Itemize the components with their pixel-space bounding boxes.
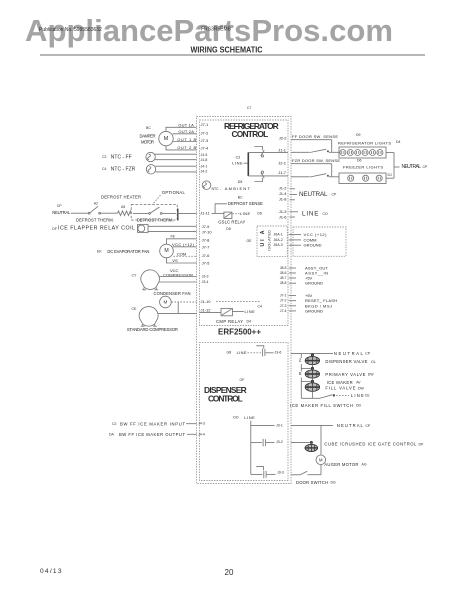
svg-text:WIRING SCHEMATIC: WIRING SCHEMATIC [191,46,263,55]
svg-text:J6A-1: J6A-1 [274,233,283,237]
node ff junction [331,140,333,153]
lamp L5 [370,150,376,156]
svg-text:DO: DO [233,416,239,420]
svg-text:CONDENSER FAN: CONDENSER FAN [154,291,191,296]
svg-text:CUBE /CRUSHED ICE GATE CONTROL: CUBE /CRUSHED ICE GATE CONTROL [324,442,417,447]
svg-text:A2: A2 [94,202,98,206]
svg-text:J1-10: J1-10 [201,299,212,304]
svg-text:M: M [163,300,167,305]
wire dispenser neutral lower [291,424,333,426]
svg-text:5: 5 [299,371,302,377]
svg-text:DD: DD [356,404,362,408]
svg-text:DEFROST THERM.: DEFROST THERM. [76,217,114,222]
svg-text:VS: VS [172,258,178,263]
ice flapper relay coil [138,225,149,233]
svg-text:DAMPER: DAMPER [140,134,156,139]
svg-text:DEFROST HEATER: DEFROST HEATER [101,195,141,200]
svg-text:OUT 2 B: OUT 2 B [177,145,196,150]
svg-text:J3-1: J3-1 [276,424,283,428]
triac Q3 [263,471,265,479]
wire vcc compressor a [159,276,196,278]
standard compressor [139,307,158,327]
tick ground [289,244,301,246]
wire cmp relay line [232,311,243,313]
junction bar [177,209,179,221]
lamp L3 [355,150,361,156]
wire line to J1-7 [248,175,288,177]
wire line to J1-1 [248,151,288,153]
svg-text:NEUTRAL: NEUTRAL [299,191,328,198]
vcc compressor [141,270,160,290]
wire evap fan COM dashed [173,255,196,257]
wire heater to optional box [129,212,131,214]
svg-text:J2-1: J2-1 [278,161,287,166]
svg-text:DOOR SWITCH: DOOR SWITCH [296,480,328,485]
svg-text:CONTROL: CONTROL [208,394,243,404]
svg-text:J4-2: J4-2 [201,169,208,173]
svg-text:REFRIGERATOR LIGHTS: REFRIGERATOR LIGHTS [338,141,391,146]
svg-text:J6A-3: J6A-3 [274,243,283,247]
svg-text:ICE FLAPPER RELAY COIL: ICE FLAPPER RELAY COIL [58,226,135,232]
svg-text:D4: D4 [396,140,401,144]
svg-text:NTC - FF: NTC - FF [111,155,132,161]
svg-text:NEUTRAL: NEUTRAL [52,210,71,215]
wire standard compressor [158,312,197,314]
svg-text:J7-5: J7-5 [202,260,211,265]
wire evap fan 2 [173,246,197,248]
wire ff sense [291,139,332,141]
wire ice maker input [186,423,197,425]
node solenoid3 top [311,378,313,380]
wire solenoid3 bottom [311,391,313,398]
wire to heater [101,212,118,214]
svg-text:J7-6: J7-6 [202,253,211,258]
switch ice maker fill [320,395,333,399]
switch fzr door [310,174,327,177]
tick comm [289,239,301,241]
svg-text:DC EVAPORATOR FAN: DC EVAPORATOR FAN [107,249,149,254]
svg-text:AUGER MOTOR: AUGER MOTOR [324,462,358,467]
svg-text:J8-5: J8-5 [280,266,287,270]
refrigerator lights box [339,147,386,158]
svg-text:LINE: LINE [245,309,256,314]
wire lights right bus [393,153,395,179]
svg-text:J7-4: J7-4 [280,309,287,313]
condenser fan motor [160,296,172,308]
dispenser line bus [250,421,252,475]
svg-text:FREEZER LIGHTS: FREEZER LIGHTS [343,164,383,169]
wire lights right a [386,152,394,154]
lamp L4 [362,150,368,156]
svg-text:J1-8: J1-8 [279,197,288,202]
svg-text:OUT 1 B: OUT 1 B [177,137,196,142]
wire bus to triac Q2 [251,442,262,444]
svg-text:DL: DL [371,360,376,364]
svg-text:LINE: LINE [244,415,255,420]
svg-text:J3-4: J3-4 [202,280,209,284]
wire line to triac dashed [248,352,262,354]
wire evap fan VS [167,258,197,263]
svg-text:J7-4: J7-4 [201,146,210,151]
svg-text:CP: CP [365,424,371,428]
svg-text:J3-3: J3-3 [277,470,284,474]
auger bus vertical [320,425,322,455]
svg-text:DW: DW [368,373,375,377]
wire defrost to J1-11 [177,212,196,214]
svg-text:BC: BC [238,195,243,199]
wire triac to J3-6 [266,352,274,354]
wire bus bottom to triac Q3 [251,473,263,475]
wire door switch stub [291,474,300,476]
svg-text:AG: AG [362,462,367,466]
svg-text:Publication No. 5995583632: Publication No. 5995583632 [39,27,102,33]
svg-text:J3-2: J3-2 [276,440,283,444]
lamp L1 [340,150,346,156]
svg-text:BW FF ICE MAKER INPUT: BW FF ICE MAKER INPUT [120,421,185,426]
svg-text:UI A: UI A [260,230,266,246]
svg-text:J6A-2: J6A-2 [274,238,283,242]
svg-text:J1-7: J1-7 [278,170,287,175]
svg-text:CP: CP [423,165,429,169]
line breakout ticks [290,211,299,213]
svg-text:D4: D4 [247,319,252,323]
svg-text:NEUTRAL: NEUTRAL [402,164,422,170]
svg-text:J1-3: J1-3 [279,209,288,214]
lamp L2 [347,150,353,156]
svg-text:GROUND: GROUND [304,243,322,248]
svg-text:J8-8: J8-8 [280,281,287,285]
auger motor M [316,455,326,465]
svg-text:J2-2: J2-2 [279,135,288,140]
stub valve3 [301,380,311,382]
svg-text:FF DOOR SW. SENSE: FF DOOR SW. SENSE [292,134,338,139]
wire auger to door switch [320,465,322,475]
lamp L8 [363,175,369,181]
module outer frame C7 [197,117,292,484]
svg-text:LINE: LINE [351,393,364,398]
svg-text:BC: BC [146,126,151,130]
svg-text:J7-3: J7-3 [201,138,210,143]
svg-text:DJ: DJ [388,173,393,177]
wire cube solenoid stub [291,441,310,443]
wire NTC-FF b [155,159,197,161]
thermistor NTC-FZR [146,165,155,174]
svg-text:2: 2 [299,357,302,363]
cmp relay K4 [221,308,232,315]
svg-text:G8: G8 [227,350,232,354]
svg-text:J3-6: J3-6 [275,351,282,355]
svg-text:AV: AV [356,380,361,384]
svg-text:BW FF ICE MAKER OUTPUT: BW FF ICE MAKER OUTPUT [119,432,185,437]
svg-text:J4-3: J4-3 [198,422,205,426]
wire evap fan VCC [167,239,197,244]
wire fzr sense [291,163,332,165]
pin number 2 [298,358,303,364]
svg-text:J1-12: J1-12 [201,308,212,313]
svg-text:CY: CY [132,274,138,278]
svg-text:CONTROL: CONTROL [232,129,269,139]
svg-text:C2: C2 [112,422,117,426]
wire dispenser neutral top [291,353,333,355]
svg-text:J8-6: J8-6 [280,271,287,275]
svg-text:DP: DP [419,442,425,446]
svg-text:OUT 2A: OUT 2A [178,129,194,134]
solenoid dispenser valve DL [305,355,319,365]
relay contact K1 [261,155,263,157]
triac Q1 [256,346,264,349]
wire bus to J3-1 [251,425,275,427]
damper motor M1 [159,131,173,145]
svg-text:CE: CE [132,307,138,311]
svg-text:DF: DF [52,227,57,231]
svg-text:NTC - FZR: NTC - FZR [111,167,136,173]
svg-text:J1-11: J1-11 [200,210,210,215]
svg-text:DG: DG [331,481,337,485]
wire J1-1 to ff switch [291,151,310,153]
title rule [40,54,425,56]
svg-text:DISPENSER VALVE: DISPENSER VALVE [325,359,367,364]
tick vcc [289,234,301,236]
wire neutral tap [394,166,400,168]
svg-text:D8: D8 [238,180,243,184]
svg-text:F8: F8 [171,234,175,238]
svg-text:DW: DW [358,386,365,390]
wire gslc line dashed [232,213,239,215]
node solenoid1 top [311,353,314,356]
svg-text:J8-7: J8-7 [280,276,287,280]
wire J1-10 dashed [216,301,260,303]
svg-text:20: 20 [225,568,234,577]
svg-text:ICE MAKER: ICE MAKER [327,380,353,385]
svg-text:M: M [164,248,168,254]
solenoid primary valve DW [305,368,319,378]
wire vcc compressor b [159,281,197,283]
stub valve2 [301,367,311,369]
svg-text:CO: CO [323,212,329,216]
svg-text:J1-4: J1-4 [279,191,288,196]
svg-text:LINE: LINE [232,161,243,166]
wire NTC-FZR a [156,165,197,167]
svg-text:J4-4: J4-4 [198,432,205,436]
wire to refrigerator lights [329,151,339,153]
switch ff door [310,149,327,152]
neutral breakout ticks [290,188,296,190]
refrigerator control board box [200,120,289,326]
svg-text:A5: A5 [121,205,125,209]
svg-text:OE: OE [246,239,252,243]
svg-text:OUT 1A: OUT 1A [178,122,194,127]
svg-text:FZR DOOR SW. SENSE: FZR DOOR SW. SENSE [292,158,340,163]
lamp L6 [377,150,383,156]
svg-text:GROUND: GROUND [305,281,323,286]
svg-text:J7-3: J7-3 [280,304,287,308]
solenoid cube crushed gate DP [305,443,318,452]
svg-text:C4: C4 [258,305,263,309]
vcc comm ground box [293,227,346,256]
svg-text:CP: CP [365,351,371,355]
svg-text:NEUTRAL: NEUTRAL [337,423,364,428]
svg-text:ISOLATED: ISOLATED [267,230,271,251]
thermistor NTC-FF [146,152,155,161]
svg-text:04/13: 04/13 [40,568,62,575]
solenoid fill valve DW [305,381,319,391]
svg-text:J7-9: J7-9 [202,224,211,229]
svg-text:J7-8: J7-8 [202,238,211,243]
svg-text:VCC (+12): VCC (+12) [304,232,328,237]
svg-text:M: M [319,458,323,463]
UI A isolated box [257,226,287,257]
svg-text:J7-1: J7-1 [201,122,210,127]
svg-text:CP: CP [57,204,63,208]
svg-text:- AMBIENT: - AMBIENT [220,186,251,191]
valve feed bus [300,354,302,399]
svg-text:GSLC RELAY: GSLC RELAY [218,220,245,225]
svg-text:D9: D9 [356,133,361,137]
svg-text:DEFROST SENSE: DEFROST SENSE [228,201,263,206]
wire relay coil a [148,225,197,227]
svg-text:COMM: COMM [304,237,317,242]
svg-text:ICE MAKER FILL SWITCH: ICE MAKER FILL SWITCH [290,403,353,408]
svg-text:J1-6: J1-6 [279,215,288,220]
line bus bar [247,152,249,176]
svg-text:OF: OF [240,378,245,382]
svg-text:OPTIONAL: OPTIONAL [162,190,186,195]
svg-text:J1-1: J1-1 [278,148,287,153]
svg-text:GROUND: GROUND [305,308,323,313]
evaporator fan motor [160,244,174,258]
svg-text:D6: D6 [257,211,262,215]
wire to freezer lights [329,176,339,178]
freezer lights box DJ [339,173,386,184]
node fzr junction [331,164,333,177]
switch door [300,471,307,475]
svg-text:DEFROST THERM.: DEFROST THERM. [137,217,174,222]
svg-text:CE: CE [365,393,371,397]
svg-text:M: M [164,136,169,142]
svg-text:FRS3R5EMB: FRS3R5EMB [201,27,232,33]
relay contact K2 [261,171,263,173]
wire fill switch bottom [301,397,319,399]
svg-text:MOTOR: MOTOR [141,139,154,144]
svg-text:ERF2500++: ERF2500++ [218,327,261,337]
wire condenser drop [177,302,179,313]
svg-text:PRIMARY VALVE: PRIMARY VALVE [325,372,365,377]
wire fill switch line dashed [336,395,349,397]
wire NTC-FF a [155,153,197,155]
svg-text:C2: C2 [102,155,107,159]
wire J1-7 to fzr switch [291,176,310,178]
svg-text:STANDARD COMPRESSOR: STANDARD COMPRESSOR [127,327,178,332]
wire J1-12 to cmp relay [200,311,222,313]
svg-text:J4-1: J4-1 [201,164,208,168]
optional defrost thermostat switch [133,212,149,214]
wire relay coil b [148,231,197,233]
gslc relay K3 [212,212,224,214]
svg-text:C4: C4 [102,167,107,171]
wire neutral to defrost therm [71,212,88,214]
lamp L7 [348,175,354,181]
svg-text:C3: C3 [236,155,241,159]
svg-text:J7-2: J7-2 [201,131,210,136]
dispenser control board box [200,343,289,481]
svg-text:J4-5: J4-5 [201,153,208,157]
svg-text:J7-7: J7-7 [202,244,211,249]
svg-text:NEUTRAL: NEUTRAL [334,351,364,356]
svg-text:J3-3: J3-3 [202,275,209,279]
svg-text:LINE: LINE [302,210,319,217]
svg-text:CP: CP [332,192,338,196]
svg-text:COM: COM [177,251,186,256]
optional dashed box [131,205,177,221]
wire NTC-FZR b [156,171,197,173]
svg-text:J4-8: J4-8 [201,158,208,162]
svg-text:EK: EK [97,249,102,253]
svg-text:J7-1: J7-1 [280,294,287,298]
svg-text:D6: D6 [357,158,362,162]
optional dashed leader [153,195,161,204]
svg-text:J7-2: J7-2 [280,299,287,303]
lamp L9 [376,175,382,181]
svg-text:VCC (+12): VCC (+12) [172,242,195,247]
svg-text:FILL VALVE: FILL VALVE [325,386,355,391]
triac Q2 [262,439,264,447]
svg-text:LINE: LINE [240,211,251,216]
wire condenser fan dashed [171,301,196,303]
svg-text:D8: D8 [226,227,231,231]
node solenoid2 top [311,365,313,367]
svg-text:LINE: LINE [237,350,247,355]
svg-text:DA: DA [109,433,115,437]
svg-text:J7-10: J7-10 [202,229,213,234]
pin number 5 [298,372,303,378]
svg-text:NTC: NTC [212,187,220,191]
triac Q3 hook [256,467,263,470]
wire ice maker output [187,433,197,435]
svg-text:C7: C7 [247,106,252,110]
wire lights right b [386,177,394,179]
node cube solenoid top [310,441,313,444]
svg-text:CMP RELAY: CMP RELAY [216,319,243,324]
